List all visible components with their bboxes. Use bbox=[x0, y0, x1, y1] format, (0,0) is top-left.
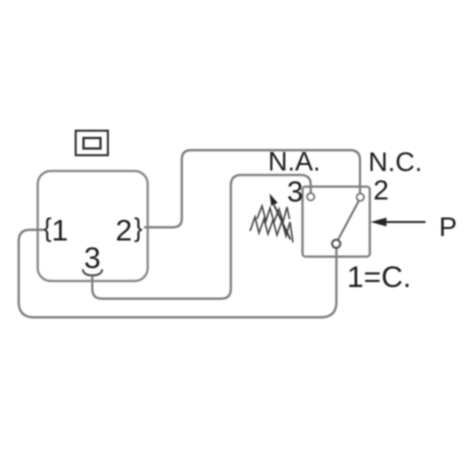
svg-text:P: P bbox=[439, 212, 457, 242]
valve body (3-port component) bbox=[38, 171, 148, 281]
terminal 1 (common) bbox=[332, 240, 340, 248]
wire port2 to terminal 2 bbox=[144, 150, 360, 227]
adjustment arrow shaft bbox=[274, 205, 291, 240]
svg-text:3: 3 bbox=[287, 177, 303, 209]
svg-text:2: 2 bbox=[116, 215, 133, 248]
svg-text:1: 1 bbox=[52, 215, 69, 248]
pilot pressure arrow head bbox=[371, 218, 387, 227]
switch lever (common to N.C.) bbox=[338, 201, 359, 241]
svg-text:}: } bbox=[134, 213, 143, 243]
spring (pressure setting) lower coil bbox=[250, 217, 293, 243]
pilot pressure arrow shaft bbox=[386, 221, 426, 223]
terminal 3 (N.A. contact) bbox=[307, 193, 314, 200]
pressure switch body bbox=[303, 187, 370, 257]
adjustment arrow head bbox=[270, 194, 278, 206]
port 3 bracket bbox=[83, 269, 103, 275]
terminal 2 (N.C. contact) bbox=[357, 194, 364, 201]
svg-text:3: 3 bbox=[84, 242, 101, 275]
svg-text:2: 2 bbox=[373, 175, 389, 206]
svg-text:1=C.: 1=C. bbox=[347, 261, 411, 294]
wire terminal 1 to port 1 bbox=[19, 230, 337, 317]
svg-text:N.A.: N.A. bbox=[268, 146, 321, 176]
spring (pressure setting) upper coil bbox=[257, 206, 290, 222]
indicator symbol (double rectangle) bbox=[76, 131, 108, 156]
wire port3 to terminal 3 bbox=[92, 175, 310, 299]
svg-text:N.C.: N.C. bbox=[368, 147, 422, 177]
